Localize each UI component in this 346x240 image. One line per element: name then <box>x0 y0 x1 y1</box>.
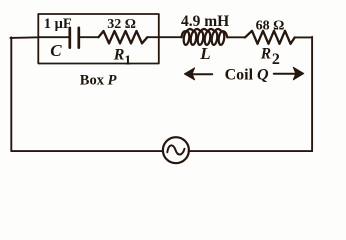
wire box edge to capacitor <box>38 36 69 38</box>
wire R1 to box right edge <box>147 36 159 38</box>
ac source circle <box>163 137 189 163</box>
wire inductor to R2 <box>227 36 245 38</box>
wire left vertical <box>10 37 12 151</box>
inductor L coil <box>182 29 228 45</box>
wire capacitor to R1 <box>79 36 99 38</box>
svg-text:Coil Q: Coil Q <box>225 66 269 83</box>
wire bottom left <box>11 150 163 152</box>
wire bottom right <box>189 150 313 152</box>
svg-text:C: C <box>50 41 62 60</box>
resistor R1 zigzag <box>99 31 148 43</box>
resistor R2 zigzag <box>245 31 295 44</box>
coil Q left arrow <box>184 68 212 80</box>
ac source sine wave <box>167 145 184 154</box>
svg-text:4.9 mH: 4.9 mH <box>181 13 229 30</box>
box P rectangle <box>38 14 159 64</box>
wire R2 to right corner <box>295 36 312 38</box>
svg-text:1 μF: 1 μF <box>44 16 72 32</box>
wire box to inductor <box>159 36 182 38</box>
svg-text:R: R <box>113 46 125 63</box>
svg-text:1: 1 <box>124 54 131 69</box>
svg-text:Box P: Box P <box>80 73 117 89</box>
svg-text:2: 2 <box>272 51 280 68</box>
capacitor C plates <box>70 28 79 48</box>
coil Q right arrow <box>274 67 304 80</box>
svg-text:32 Ω: 32 Ω <box>107 17 136 32</box>
svg-text:68 Ω: 68 Ω <box>256 18 285 33</box>
wire right vertical <box>311 37 313 151</box>
wire top-left into box <box>10 36 38 39</box>
svg-text:R: R <box>260 46 271 63</box>
svg-text:L: L <box>199 44 210 63</box>
